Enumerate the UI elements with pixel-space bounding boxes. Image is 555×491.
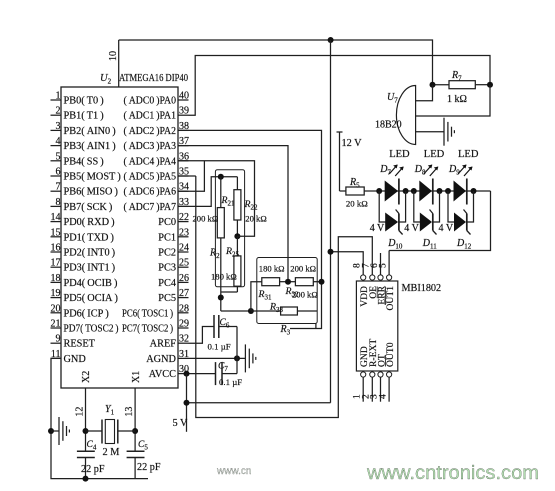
wire 5V rail [187,402,331,404]
wire PA7 net [178,177,237,207]
svg-text:6: 6 [56,167,61,178]
supply 5V stub [186,374,188,432]
wire OE pin7 [196,176,372,418]
pin 29 PC7(&#8201;TOSC2&#8201;) stub [122,319,189,335]
MBI top label VDD [359,286,370,307]
pin 27 PC5 stub [158,288,189,304]
svg-text:200 kΩ: 200 kΩ [290,264,316,274]
svg-text:12 V: 12 V [342,138,363,149]
svg-text:PB5( MOST ): PB5( MOST ) [64,172,121,183]
zener 2 value 4V [404,223,419,234]
wire XTAL2 [85,388,87,451]
svg-text:( ADC5 )PA5: ( ADC5 )PA5 [124,172,177,183]
svg-text:ATMEGA16 DIP40: ATMEGA16 DIP40 [119,73,188,84]
pin 18 PD4(&#8201;OCIB&#8201;) stub [51,273,118,289]
svg-text:5: 5 [378,263,388,268]
MBI pin 3 bottom stub [370,377,381,402]
MBI pin 4 bottom stub [378,377,389,402]
svg-text:PC2: PC2 [158,248,176,259]
svg-text:10: 10 [108,51,119,61]
svg-text:MBI1802: MBI1802 [402,283,442,294]
wire ERR pin6 stub [380,253,382,275]
wire LED return [389,191,490,251]
zener 1 value 4V [370,223,385,234]
pin 15 PD1(&#8201;TXD&#8201;) stub [51,227,114,243]
pin 23 PC1 stub [158,227,189,243]
capacitor C4 [77,451,95,478]
C4 value [81,464,105,475]
pin 37 (&#8201;ADC3&#8201;)PA3 stub [124,136,190,152]
U7 pin2 wire [416,85,490,116]
wire PA3 riser [178,146,288,282]
MBI pin 1 circle [361,372,366,377]
pin 3 PB2(&#8201;AIN0&#8201;) stub [51,121,116,137]
R7 value 1 kOhm [447,94,467,105]
svg-text:PB2( AIN0 ): PB2( AIN0 ) [64,126,116,137]
pin 22 PC0 stub [158,212,189,228]
D11 label [422,238,437,251]
node LED3 anode [445,188,451,194]
supply 12V stub [337,132,343,191]
box right network [257,258,317,324]
MBI top label OE [368,286,379,299]
watermark [366,462,539,484]
svg-text:180 kΩ: 180 kΩ [259,264,285,274]
svg-text:LED: LED [389,149,410,160]
svg-text:40: 40 [179,91,189,102]
resistor R25 [221,236,241,292]
node X1 junction [132,428,138,434]
svg-text:PD5( OCIA ): PD5( OCIA ) [64,293,118,304]
svg-text:22 pF: 22 pF [137,462,161,473]
R5 value 20 kOhm [346,199,368,209]
MBI pin 2 circle [370,372,375,377]
LED D7 [385,179,399,205]
pin 17 PD3(&#8201;INT1&#8201;) stub [51,258,116,274]
svg-text:( ADC0 )PA0: ( ADC0 )PA0 [124,96,177,107]
LED label 3 [458,149,479,160]
node AGND junction [234,355,240,361]
ground crystal [51,417,69,445]
svg-text:PB4( SS ): PB4( SS ) [64,156,104,167]
wire PA2 riser [178,130,322,328]
Y1 value 2M [103,447,120,458]
svg-text:PB6( MISO ): PB6( MISO ) [64,187,118,198]
MBI pin 7 circle [370,275,375,280]
D12 label [456,238,472,251]
MBI pin 5 number [378,263,388,268]
zener 3 value 4V [439,223,454,234]
MBI pin 5 circle [387,275,392,280]
svg-text:20: 20 [51,303,61,314]
R5 label [349,177,360,190]
C5 label [138,440,148,452]
svg-text:PD2( INT0 ): PD2( INT0 ) [64,248,116,259]
LED D8 [419,179,433,205]
svg-text:PD6( ICP ): PD6( ICP ) [64,308,109,319]
node 5V junction [184,400,190,406]
svg-text:RESET: RESET [64,339,96,350]
node R31-R32 [285,279,291,285]
pin 5 PB4(&#8201;SS&#8201;) stub [51,151,104,167]
node VCC-rail junction [328,37,334,43]
svg-text:5 V: 5 V [173,418,189,429]
pin 21 PD7(&#8201;TOSC2&#8201;) stub [51,319,119,335]
svg-text:1: 1 [56,91,61,102]
node R7 left [430,82,436,88]
wire VDD pin8 [331,252,364,275]
MBI bottom label GND [359,346,370,367]
R22 label [244,199,258,212]
svg-text:2: 2 [56,106,61,117]
pin 36 (&#8201;ADC4&#8201;)PA4 stub [124,151,190,167]
wire VCC top rail [119,40,433,85]
svg-text:200 kΩ: 200 kΩ [292,290,318,300]
node left net bottom [218,295,224,301]
zener D11 [414,191,440,235]
svg-text:23: 23 [179,227,189,238]
pin 6 PB5(&#8201;MOST&#8201;) stub [51,167,121,183]
svg-text:14: 14 [51,212,61,223]
R22 value [245,214,266,224]
R21 value [193,214,219,224]
svg-text:PB0( T0 ): PB0( T0 ) [64,96,104,107]
svg-text:PC4: PC4 [158,278,176,289]
capacitor C5 [127,451,145,478]
node LED1 cathode [403,188,409,194]
resistor R33 [251,307,317,315]
svg-text:PD7( TOSC2 ): PD7( TOSC2 ) [64,324,119,335]
node VDD-pin8 junction [328,249,334,255]
svg-text:31: 31 [179,349,189,360]
D10 label [387,238,403,251]
wire AGND [189,357,246,359]
svg-text:24: 24 [179,243,189,254]
pin 8 PB7(&#8201;SCK&#8201;) stub [51,197,113,213]
node R22-R25 [234,233,240,239]
svg-text:3: 3 [56,121,61,132]
svg-text:1 kΩ: 1 kΩ [447,94,467,105]
X2 label [81,371,92,383]
node LED2 anode [411,188,417,194]
MBI pin 8 number [353,263,363,268]
pin 32 AREF stub [150,334,189,350]
resistor R5 [340,187,380,195]
svg-text:LED: LED [458,149,479,160]
node LED1 anode [376,188,382,194]
U7 pin3 wire [416,131,444,133]
svg-text:PD4( OCIB ): PD4( OCIB ) [64,278,118,289]
node LED3 cathode [471,188,477,194]
pin 34 (&#8201;ADC6&#8201;)PA6 stub [124,182,190,198]
MBI top label ERR [376,285,387,304]
LED D9 [454,179,467,205]
C4 label [87,440,97,452]
D8 label [414,164,439,177]
svg-text:200 kΩ: 200 kΩ [193,214,219,224]
svg-text:OUT0: OUT0 [385,342,396,367]
R31 value [259,264,285,274]
svg-text:2 M: 2 M [103,447,120,458]
12V label [342,138,363,149]
MBI pin 3 circle [378,372,383,377]
svg-text:4 V: 4 V [370,223,385,234]
svg-text:22 pF: 22 pF [81,464,105,475]
svg-text:13: 13 [124,407,135,417]
svg-text:9: 9 [56,334,61,345]
MBI pin 2 bottom stub [362,377,373,402]
pin 31 AGND stub [146,349,189,365]
D9 label [448,164,473,177]
svg-text:www.cn: www.cn [216,466,251,477]
U7 pin1 wire [416,85,433,101]
svg-text:PC1: PC1 [158,232,176,243]
svg-text:PC7( TOSC2 ): PC7( TOSC2 ) [122,324,173,335]
svg-text:32: 32 [179,334,189,345]
svg-text:20 kΩ: 20 kΩ [346,199,368,209]
pin 9 RESET stub [51,334,96,350]
wire PA5 stub-to-OE [178,175,196,177]
svg-text:0.1 µF: 0.1 µF [219,377,242,387]
svg-text:4 V: 4 V [439,223,454,234]
C7 label [218,362,228,374]
pin 11 GND stub [51,349,87,365]
svg-text:PD3( INT1 ): PD3( INT1 ) [64,263,116,274]
svg-text:5: 5 [56,151,61,162]
wire AREF [189,327,215,344]
svg-text:PB3( AIN1 ): PB3( AIN1 ) [64,141,116,152]
svg-text:4: 4 [378,394,388,399]
svg-text:PB1( T1 ): PB1( T1 ) [64,111,104,122]
R3 label [280,324,316,337]
pin 33 (&#8201;ADC7&#8201;)PA7 stub [124,197,190,213]
pin 38 (&#8201;ADC2&#8201;)PA2 stub [124,121,190,137]
MBI pin 4 circle [387,372,392,377]
svg-text:PD0( RXD ): PD0( RXD ) [64,217,115,228]
pin 16 PD2(&#8201;INT0&#8201;) stub [51,243,116,259]
pin 2 PB1(&#8201;T1&#8201;) stub [51,106,104,122]
op-amp U2 ATMEGA16 body [61,87,178,388]
pin 10 label [108,51,119,61]
wire C6C7 riser [236,327,238,374]
svg-text:PD1( TXD ): PD1( TXD ) [64,232,114,243]
MBI pin 7 number [362,263,372,268]
R32 label [285,286,299,299]
sensor U7 18B20 body [396,86,415,145]
svg-text:20 kΩ: 20 kΩ [245,214,266,224]
R32 value [290,264,316,274]
svg-text:( ADC3 )PA3: ( ADC3 )PA3 [124,141,177,152]
svg-text:17: 17 [51,258,61,269]
svg-text:12: 12 [75,407,86,417]
wire OUT1 pin5 [388,251,390,275]
node R21 top [218,174,224,180]
wire AVCC [189,373,216,375]
D7 label [379,164,404,177]
svg-text:25: 25 [179,258,189,269]
driver MBI1802 body [356,281,397,371]
box left network [215,170,244,287]
svg-text:( ADC6 )PA6: ( ADC6 )PA6 [124,187,177,198]
Y1 label [105,404,115,417]
C5 value [137,462,161,473]
MBI1802 label [402,283,442,294]
wire PA6 loop [178,161,255,237]
U7 value 18B20 [375,120,402,131]
ground AGND [245,344,255,372]
wire XTAL1 [134,388,136,451]
pin 14 PD0(&#8201;RXD&#8201;) stub [51,212,115,228]
pin 39 (&#8201;ADC1&#8201;)PA1 stub [124,106,190,122]
svg-text:18B20: 18B20 [375,120,402,131]
svg-text:19: 19 [51,288,61,299]
node R31 feed [248,308,254,314]
pin 40 (&#8201;ADC0&#8201;)PA0 stub [124,91,190,107]
svg-text:( ADC7 )PA7: ( ADC7 )PA7 [124,202,177,213]
5V label [173,418,189,429]
R33 label [269,302,283,315]
R31 label [258,289,272,302]
svg-text:( ADC4 )PA4: ( ADC4 )PA4 [124,156,177,167]
LED label 1 [389,149,410,160]
svg-text:( ADC2 )PA2: ( ADC2 )PA2 [124,126,177,137]
pin 12 label [75,407,86,417]
resistor R22 [234,177,241,237]
pin 10 VCC riser [118,40,120,87]
R33 value [292,290,318,300]
MBI pin 8 circle [361,275,366,280]
pin 13 label [124,407,135,417]
svg-text:7: 7 [56,182,61,193]
wire bottom to R3x [221,310,251,312]
pin 35 (&#8201;ADC5&#8201;)PA5 stub [124,167,190,183]
pin 25 PC3 stub [158,258,189,274]
svg-text:0.1 µF: 0.1 µF [208,342,231,352]
R2 label [209,248,220,261]
svg-text:29: 29 [179,319,189,330]
node R7 right [487,82,493,88]
LED label 2 [424,149,445,160]
U7 label [387,92,398,105]
pin 1 PB0(&#8201;T0&#8201;) stub [51,91,104,107]
pin 4 PB3(&#8201;AIN1&#8201;) stub [51,136,116,152]
svg-text:( ADC1 )PA1: ( ADC1 )PA1 [124,111,177,122]
MBI pin 6 circle [378,275,383,280]
svg-text:27: 27 [179,288,189,299]
svg-text:21: 21 [51,319,61,330]
pin 19 PD5(&#8201;OCIA&#8201;) stub [51,288,118,304]
svg-text:16: 16 [51,243,61,254]
svg-text:X1: X1 [131,371,142,383]
node gnd tap [48,428,54,434]
watermark smudge [216,466,251,477]
svg-text:PC0: PC0 [158,217,176,228]
pin 28 PC6(&#8201;TOSC1&#8201;) stub [122,303,189,319]
pin 30 AVCC stub [149,364,189,380]
wire LED anode rail [379,190,490,192]
resistor R31 [251,278,296,311]
svg-text:15: 15 [51,227,61,238]
pin 20 PD6(&#8201;ICP&#8201;) stub [51,303,109,319]
C6 label [220,318,230,330]
R7 label [451,70,462,83]
ground 18B20 [444,118,454,146]
capacitor C7 [216,362,238,385]
zener D10 [379,191,405,235]
node C4 gnd [83,476,89,482]
wire PA1 to 18B20 DQ [189,56,491,116]
MBI bottom label OT [376,354,387,367]
R25 value [211,272,237,282]
svg-text:PC5: PC5 [158,293,176,304]
svg-text:180 kΩ: 180 kΩ [211,272,237,282]
svg-text:AVCC: AVCC [149,369,176,380]
pin 7 PB6(&#8201;MISO&#8201;) stub [51,182,118,198]
svg-text:4 V: 4 V [404,223,419,234]
MBI pin 1 bottom stub [352,377,363,402]
wire GND [51,358,148,478]
MBI pin 6 number [370,263,380,268]
resistor R7 [433,81,491,89]
R21 label [221,195,235,208]
svg-text:39: 39 [179,106,189,117]
svg-text:GND: GND [64,354,87,365]
X1 label [131,371,142,383]
resistor R21 [217,177,224,311]
svg-text:18: 18 [51,273,61,284]
svg-text:4: 4 [56,136,61,147]
C6 value [208,342,231,352]
svg-text:OUT1: OUT1 [385,286,396,311]
wire VDD rail [330,40,332,403]
node R32 right [319,279,325,285]
node AVCC junction [184,371,190,377]
svg-text:LED: LED [424,149,445,160]
pin 24 PC2 stub [158,243,189,259]
capacitor C6 [214,315,237,338]
crystal Y1 [86,420,136,444]
svg-text:8: 8 [56,197,61,208]
svg-text:AGND: AGND [146,354,176,365]
MBI bottom label R-EXT [368,339,379,367]
svg-text:28: 28 [179,303,189,314]
svg-text:PB7( SCK ): PB7( SCK ) [64,202,113,213]
R25 label [225,246,239,259]
U2 title [100,73,188,86]
svg-text:www.cntronics.com: www.cntronics.com [366,462,539,484]
svg-text:AREF: AREF [150,339,177,350]
MBI bottom label OUT0 [385,342,396,367]
pin 26 PC4 stub [158,273,189,289]
svg-text:26: 26 [179,273,189,284]
node X2 junction [83,428,89,434]
resistor R32 [295,278,321,286]
MBI top label OUT1 [385,286,396,311]
svg-text:PC3: PC3 [158,263,176,274]
C7 value [219,377,242,387]
node LED2 cathode [437,188,443,194]
svg-text:X2: X2 [81,371,92,383]
zener D12 [448,191,474,235]
svg-text:22: 22 [179,212,189,223]
svg-text:PC6( TOSC1 ): PC6( TOSC1 ) [122,308,173,319]
